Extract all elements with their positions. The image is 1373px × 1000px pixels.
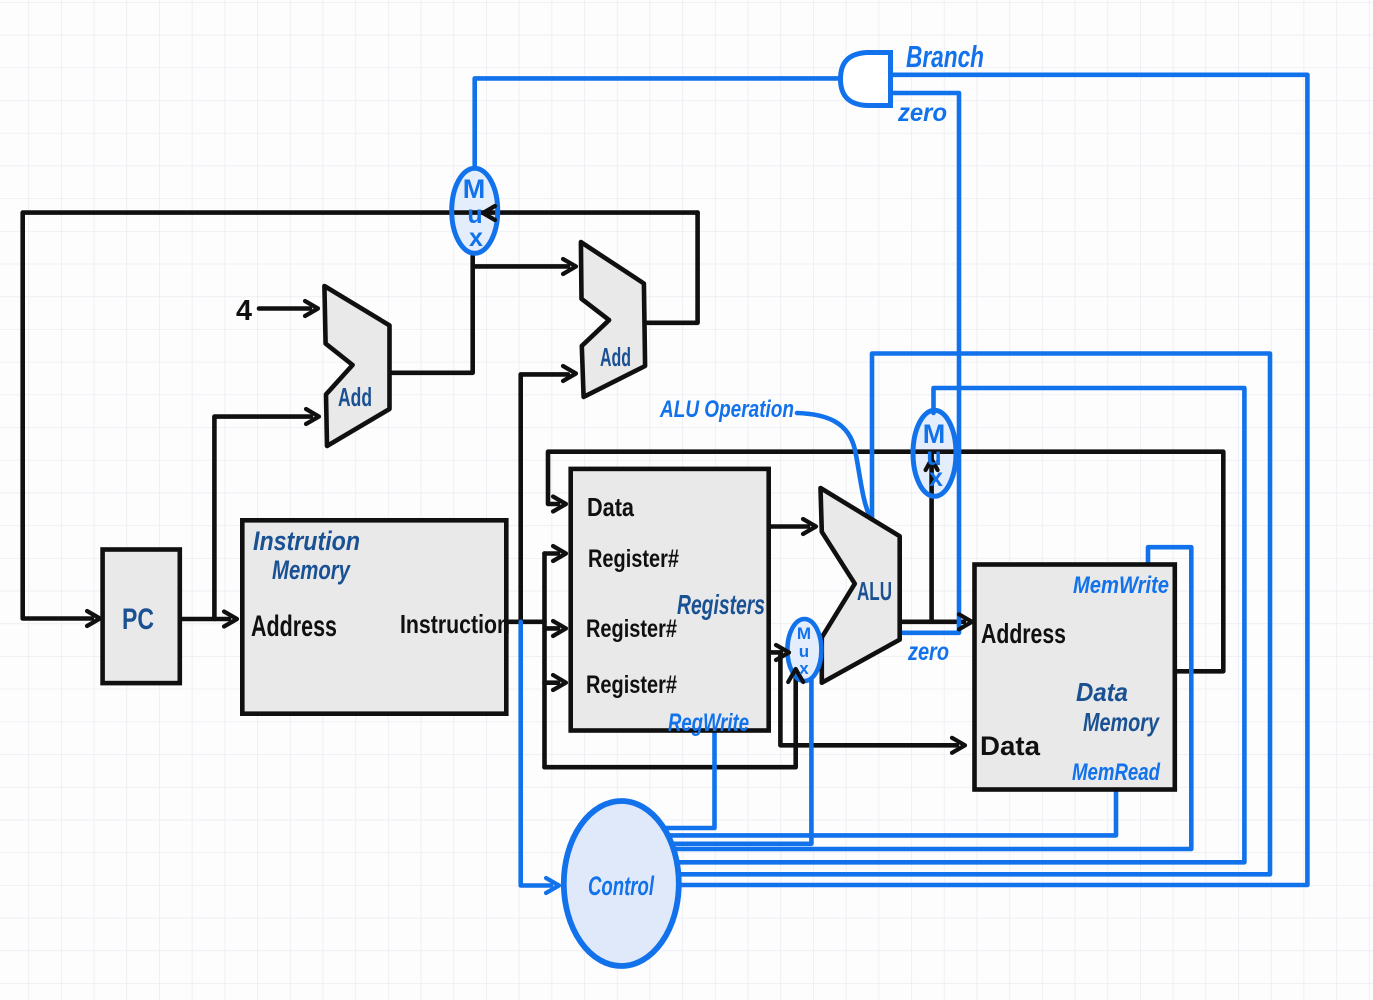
arrowhead into PC xyxy=(87,611,100,626)
svg-text:ALU: ALU xyxy=(857,576,892,606)
arrowhead into IM Address xyxy=(224,612,237,627)
svg-text:zero: zero xyxy=(907,638,949,666)
wire Registers read-data2 to mux3 left input xyxy=(768,650,781,655)
svg-text:M: M xyxy=(797,624,811,643)
wire Add1 output up to mux1 bottom xyxy=(390,253,473,373)
wire blue ALU-Operation to Control xyxy=(676,354,1270,875)
wire ALU result to Data Memory Address xyxy=(900,619,964,624)
callout squiggle from ALU Operation label xyxy=(797,413,870,517)
arrowhead into mux3 left xyxy=(776,645,789,660)
svg-text:MemRead: MemRead xyxy=(1072,759,1161,786)
svg-text:Data: Data xyxy=(587,492,634,522)
wire PC output branch up to Add1 lower input xyxy=(214,417,311,619)
ALU xyxy=(821,488,900,683)
svg-text:Branch: Branch xyxy=(906,39,984,74)
svg-text:RegWrite: RegWrite xyxy=(668,709,749,737)
svg-text:Registers: Registers xyxy=(677,589,765,620)
wire PC output to Instruction Memory Address xyxy=(180,617,229,622)
wire blue MemRead from Data Memory bottom to Control xyxy=(668,790,1116,836)
arrowhead into Registers Data xyxy=(553,497,566,512)
arrowhead left into mux1 xyxy=(483,206,495,220)
mux M1 fill xyxy=(452,168,498,253)
svg-text:Data: Data xyxy=(980,731,1041,761)
arrowhead into Register#1 xyxy=(553,546,566,561)
wire blue Branch from Control up right side to AND gate xyxy=(676,75,1307,885)
svg-text:Register#: Register# xyxy=(586,671,677,699)
arrowhead into DM Data xyxy=(952,738,965,753)
arrowhead into Control (blue) xyxy=(546,878,559,893)
arrowhead left into mux2 xyxy=(926,459,938,470)
svg-text:x: x xyxy=(469,224,483,252)
svg-text:Register#: Register# xyxy=(586,615,677,643)
Instruction Memory box xyxy=(242,520,506,713)
adder Add1 (PC+4) xyxy=(324,286,389,446)
svg-text:4: 4 xyxy=(236,295,252,327)
wire blue RegWrite from Registers bottom to Control xyxy=(664,731,715,828)
svg-text:ALU Operation: ALU Operation xyxy=(659,396,794,423)
svg-text:Add: Add xyxy=(600,342,631,372)
wire PC-writeback loop (mux1 output to PC input) xyxy=(23,213,698,619)
wire instruction register-number vertical bus xyxy=(542,554,547,768)
wire blue MemtoReg from mux2 top to Control xyxy=(674,388,1244,862)
Data Memory box xyxy=(975,565,1175,790)
wire Registers read-data1 to ALU upper input xyxy=(768,524,808,529)
svg-text:MemWrite: MemWrite xyxy=(1073,572,1169,599)
arrowhead into Add1 lower xyxy=(306,409,319,424)
wire blue MemWrite from Data Memory top to Control xyxy=(672,547,1191,849)
svg-text:x: x xyxy=(799,659,809,678)
svg-text:Instruction: Instruction xyxy=(400,609,510,639)
wire into Register#1 xyxy=(545,551,559,556)
arrowhead into ALU upper input xyxy=(803,519,816,534)
adder Add2 (branch target) xyxy=(581,242,645,397)
PC register box xyxy=(103,550,180,684)
svg-text:x: x xyxy=(929,464,943,492)
wire blue instruction to Control input xyxy=(521,622,551,886)
arrowhead into DM Address xyxy=(959,614,972,629)
arrowhead up into mux3 bottom xyxy=(788,669,803,682)
wire blue mux3 select to Control xyxy=(670,680,811,844)
svg-text:Address: Address xyxy=(981,618,1066,649)
svg-text:Add: Add xyxy=(338,382,372,412)
svg-text:zero: zero xyxy=(897,99,947,127)
mux M2 fill xyxy=(913,410,956,496)
wire blue mux1 select from AND gate output xyxy=(475,78,842,168)
wire blue zero from ALU up to AND gate xyxy=(891,93,960,633)
wire into Register#2 xyxy=(545,626,559,631)
svg-text:PC: PC xyxy=(122,603,154,636)
svg-text:Memory: Memory xyxy=(272,555,351,585)
wire read-data2 branch down to Data Memory Data input xyxy=(780,652,957,745)
svg-text:Instrution: Instrution xyxy=(253,526,360,556)
arrowhead into Register#2 xyxy=(553,621,566,636)
mux M1 (PC source mux) xyxy=(452,168,498,253)
wire bottom instruction line to mux3 lower input xyxy=(545,676,796,767)
wire ALU result up to mux2 bottom xyxy=(929,453,934,622)
wire Instruction output xyxy=(507,619,545,624)
svg-text:Memory: Memory xyxy=(1083,707,1160,737)
svg-text:Register#: Register# xyxy=(588,545,679,573)
arrowhead into Register#3 xyxy=(553,675,566,690)
wire instruction branch up to Add2 lower input xyxy=(521,374,568,621)
wire branch-target from Add2 output up to mux1 line xyxy=(645,213,697,323)
arrowhead into Add2 upper xyxy=(563,259,576,274)
Control unit oval xyxy=(564,801,679,966)
mux M3 (ALU source mux) xyxy=(787,619,821,681)
wire into Register#3 xyxy=(545,680,559,685)
svg-text:M: M xyxy=(463,174,486,204)
wire mux1 branch to Add2 upper input xyxy=(473,264,568,269)
AND gate (branch and zero) xyxy=(841,53,891,106)
mux M3 fill xyxy=(787,619,821,681)
arrowhead into Add2 lower xyxy=(563,366,576,381)
Registers box xyxy=(571,469,769,731)
svg-text:Control: Control xyxy=(588,871,654,901)
wire write-back data line from Data Memory loop through mux2 to Registers Data input xyxy=(548,452,1223,672)
wire constant 4 into Add1 upper input xyxy=(259,306,310,311)
svg-text:Address: Address xyxy=(251,610,337,643)
svg-text:Data: Data xyxy=(1076,677,1128,707)
mux M2 (write-back mux) xyxy=(913,410,956,496)
arrowhead 4 into Add1 xyxy=(305,301,318,316)
